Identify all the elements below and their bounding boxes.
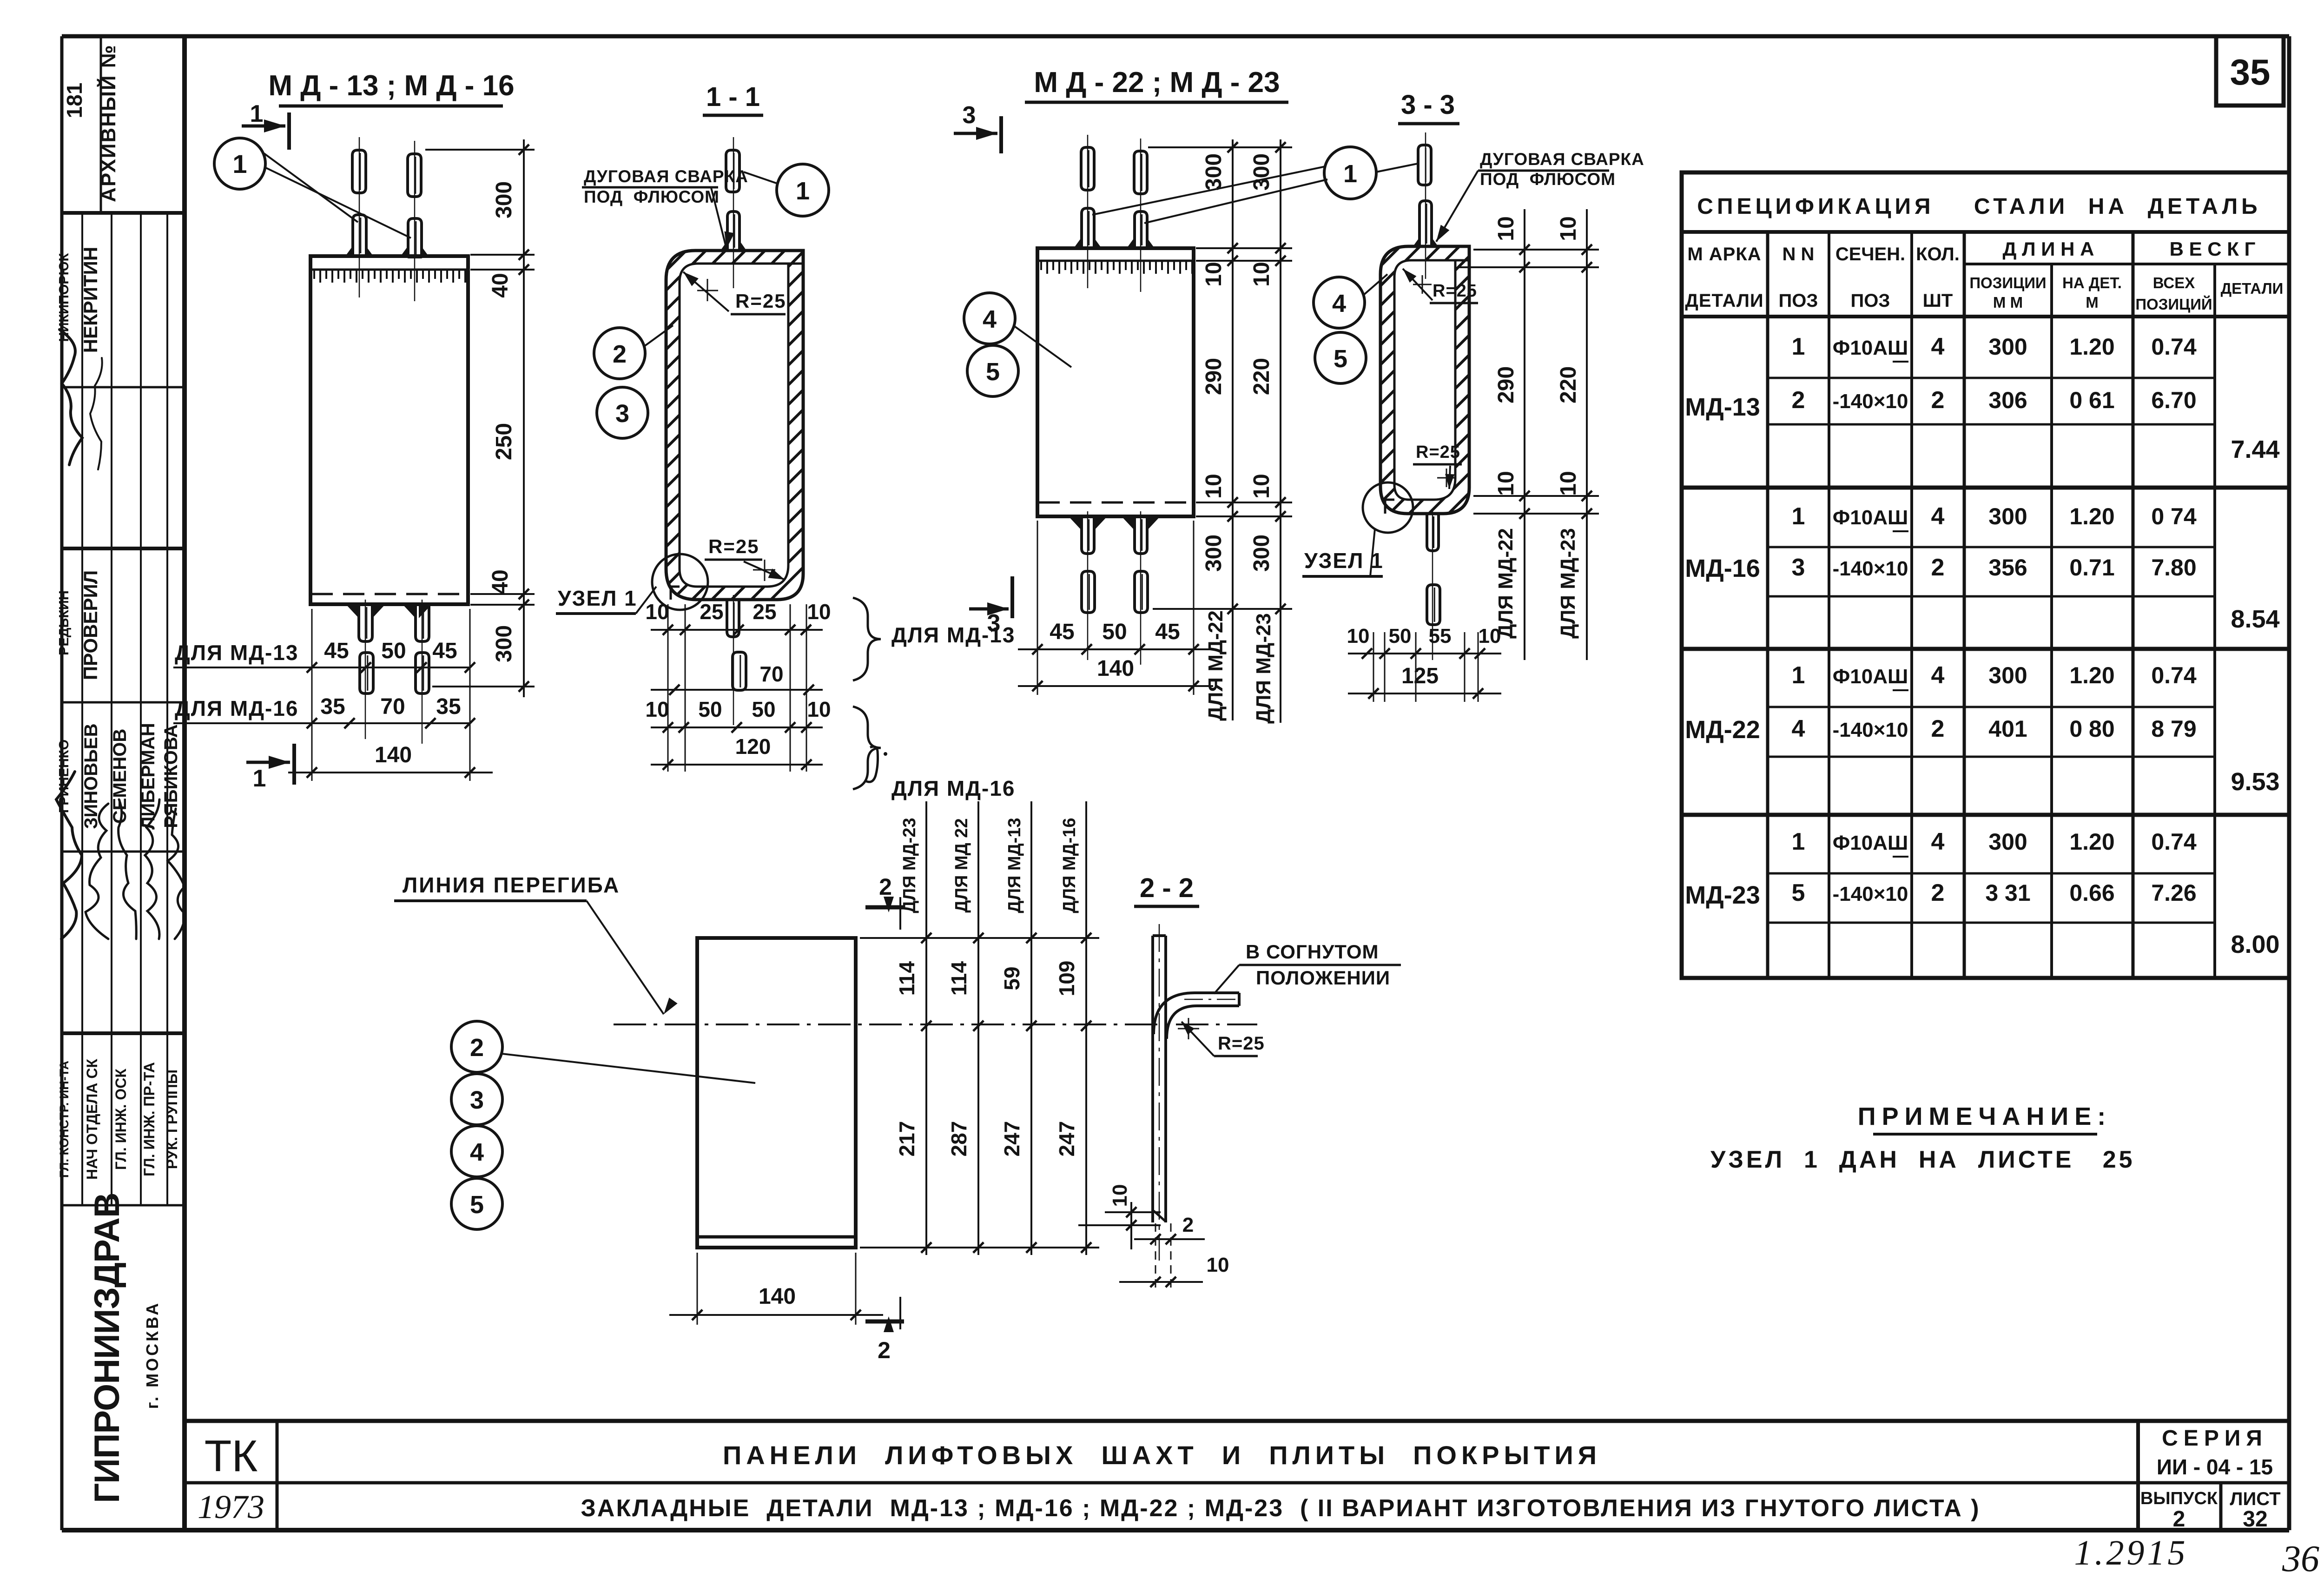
svg-text:70: 70: [380, 694, 405, 719]
svg-text:1.20: 1.20: [2069, 503, 2114, 529]
leader from circle 2: [502, 1054, 755, 1083]
svg-text:НА ДЕТ.: НА ДЕТ.: [2062, 274, 2122, 291]
svg-text:1: 1: [1792, 503, 1805, 530]
section mark 3 (top): [954, 132, 997, 135]
section 1-1 top anchor bar detached: [726, 150, 739, 192]
svg-text:R=25: R=25: [735, 290, 786, 312]
svg-text:ДЛЯ МД-13: ДЛЯ МД-13: [175, 641, 298, 665]
section 1-1 extension verticals: [667, 604, 669, 772]
svg-text:220: 220: [1249, 358, 1274, 395]
svg-text:4: 4: [1931, 333, 1945, 360]
svg-text:ДЕТАЛИ: ДЕТАЛИ: [1685, 291, 1763, 311]
svg-text:300: 300: [1988, 503, 2027, 529]
МД-22 bottom bars detached: [1082, 571, 1095, 613]
callout circle 1: [214, 138, 265, 189]
2-2 vertical plate: [1151, 936, 1154, 1222]
bar centerlines bottom: [365, 600, 366, 739]
svg-text:ДЛЯ МД-16: ДЛЯ МД-16: [1060, 818, 1079, 913]
dims 10/50/50/10: [651, 726, 823, 728]
svg-text:0.74: 0.74: [2151, 829, 2197, 855]
svg-text:МД-23: МД-23: [1685, 881, 1760, 909]
svg-text:1: 1: [250, 100, 264, 127]
svg-text:35: 35: [436, 694, 461, 719]
svg-text:N N: N N: [1783, 244, 1815, 264]
row: handwritten signatures: [59, 330, 82, 465]
section 3-3 top bar detached: [1418, 145, 1431, 185]
МД-22 top bars welded: [1082, 208, 1094, 248]
svg-text:2: 2: [613, 340, 627, 368]
svg-text:35: 35: [320, 694, 345, 719]
svg-text:Д Л И Н А: Д Л И Н А: [2003, 238, 2094, 260]
svg-text:140: 140: [1097, 656, 1134, 681]
svg-text:УЗЕЛ 1: УЗЕЛ 1: [558, 586, 637, 610]
svg-text:10: 10: [1202, 474, 1226, 498]
svg-text:1: 1: [1792, 828, 1805, 855]
svg-text:ЗИНОВЬЕВ: ЗИНОВЬЕВ: [81, 723, 101, 829]
svg-text:СЕЧЕН.: СЕЧЕН.: [1835, 244, 1905, 264]
fold line dash-dot: [614, 1024, 1257, 1025]
svg-text:0 74: 0 74: [2151, 503, 2197, 529]
svg-text:0.66: 0.66: [2069, 880, 2114, 906]
svg-text:РЯБИКОВА: РЯБИКОВА: [161, 724, 181, 828]
svg-text:300: 300: [1249, 153, 1274, 191]
МД-22 top bars detached: [1081, 147, 1094, 190]
svg-text:1.20: 1.20: [2069, 829, 2114, 855]
svg-text:10: 10: [1202, 262, 1226, 286]
dim column ДЛЯ МД-13: [1030, 801, 1032, 1255]
svg-text:-140×10: -140×10: [1833, 719, 1908, 741]
svg-text:45: 45: [1155, 620, 1180, 644]
svg-text:ПОЗИЦИИ: ПОЗИЦИИ: [1969, 274, 2046, 291]
svg-text:7.80: 7.80: [2151, 555, 2196, 581]
svg-text:3: 3: [963, 102, 976, 129]
section 1-1 top anchor bar welded: [727, 211, 739, 251]
3-3 dim 125: [1348, 693, 1501, 694]
extension lines of dim columns: [860, 937, 1099, 939]
svg-text:ДЛЯ МД-23: ДЛЯ МД-23: [1557, 528, 1579, 639]
svg-text:ДУГОВАЯ СВАРКА: ДУГОВАЯ СВАРКА: [1480, 150, 1644, 169]
svg-text:ДЕТАЛИ: ДЕТАЛИ: [2221, 280, 2284, 297]
svg-text:10: 10: [1207, 1254, 1229, 1276]
svg-text:ВСЕХ: ВСЕХ: [2153, 274, 2195, 291]
dim 140 of development: [669, 1314, 883, 1316]
svg-text:3 31: 3 31: [1985, 880, 2030, 906]
svg-text:М Д - 22 ; М Д - 23: М Д - 22 ; М Д - 23: [1034, 66, 1280, 99]
svg-text:4: 4: [470, 1138, 484, 1166]
specification table frame: [1682, 172, 2289, 978]
svg-text:2: 2: [1792, 387, 1805, 414]
svg-text:125: 125: [1401, 664, 1439, 688]
svg-text:ПАНЕЛИ ЛИФТОВЫХ ШАХТ И ПЛИ: ПАНЕЛИ ЛИФТОВЫХ ШАХТ И ПЛИТЫ ПОКРЫТИЯ: [723, 1440, 1601, 1470]
svg-text:1: 1: [1792, 333, 1805, 360]
МД-22 right dim lines: [1232, 139, 1234, 720]
svg-text:45: 45: [1050, 620, 1074, 644]
svg-text:4: 4: [1792, 715, 1805, 742]
bar centerlines top: [359, 137, 360, 297]
svg-text:290: 290: [1494, 366, 1519, 403]
svg-text:ПОД ФЛЮСОМ: ПОД ФЛЮСОМ: [1480, 170, 1616, 189]
svg-text:109: 109: [1055, 961, 1079, 997]
svg-text:1.20: 1.20: [2069, 334, 2114, 360]
svg-text:181: 181: [62, 83, 86, 119]
2-2 dim 10 (bottom): [1119, 1281, 1203, 1283]
svg-text:50: 50: [381, 639, 406, 663]
section 1-1 bottom bar detached: [733, 652, 746, 690]
svg-text:ПОЗ: ПОЗ: [1779, 291, 1818, 311]
sheet number box 35: [2216, 36, 2284, 106]
svg-text:1.20: 1.20: [2069, 662, 2114, 688]
svg-text:-140×10: -140×10: [1833, 883, 1908, 905]
svg-text:2: 2: [1931, 879, 1945, 906]
callout circles 4,5: [964, 293, 1015, 344]
svg-text:4: 4: [1931, 503, 1945, 530]
svg-text:114: 114: [947, 961, 971, 996]
svg-text:50: 50: [752, 697, 775, 721]
svg-text:36: 36: [2282, 1539, 2319, 1579]
svg-text:ЛИСТ: ЛИСТ: [2230, 1489, 2280, 1509]
development rectangle: [697, 938, 856, 1248]
svg-text:8 79: 8 79: [2151, 716, 2196, 742]
svg-text:10: 10: [1556, 216, 1581, 241]
svg-text:10: 10: [1479, 625, 1501, 647]
svg-text:10: 10: [645, 697, 669, 721]
svg-text:г. МОСКВА: г. МОСКВА: [143, 1301, 162, 1409]
svg-text:Ф10АШ: Ф10АШ: [1833, 337, 1908, 359]
svg-text:Ф10АШ: Ф10АШ: [1833, 506, 1908, 529]
svg-text:4: 4: [1931, 662, 1945, 689]
svg-text:300: 300: [1988, 829, 2027, 855]
svg-text:РЕДЬКИН: РЕДЬКИН: [57, 590, 72, 655]
anchor bars pos 1 top (welded): [353, 215, 366, 256]
svg-text:0.74: 0.74: [2151, 662, 2197, 688]
svg-text:40: 40: [488, 273, 513, 297]
svg-text:АРХИВНЫЙ №: АРХИВНЫЙ №: [96, 44, 120, 202]
svg-text:1 - 1: 1 - 1: [706, 82, 760, 112]
section 3-3 right dim lines: [1524, 209, 1525, 660]
brace 2: [853, 707, 881, 789]
section 1-1 bottom bar welded: [727, 600, 739, 637]
svg-text:3 - 3: 3 - 3: [1401, 90, 1455, 120]
svg-text:0 80: 0 80: [2069, 716, 2114, 742]
svg-text:2: 2: [878, 1337, 891, 1363]
svg-text:МД-16: МД-16: [1685, 555, 1760, 582]
svg-text:114: 114: [895, 961, 919, 996]
svg-text:306: 306: [1988, 387, 2027, 413]
anchor bars bottom (detached): [360, 653, 373, 693]
svg-text:10: 10: [1556, 471, 1581, 495]
svg-text:УЗЕЛ 1 ДАН НА ЛИСТЕ 25: УЗЕЛ 1 ДАН НА ЛИСТЕ 25: [1710, 1146, 2135, 1173]
svg-text:300: 300: [492, 625, 516, 662]
svg-text:СЕРИЯ: СЕРИЯ: [2162, 1426, 2268, 1451]
svg-text:3: 3: [470, 1086, 484, 1114]
svg-text:250: 250: [492, 423, 516, 460]
svg-text:300: 300: [1202, 153, 1226, 191]
svg-text:ЛИНИЯ ПЕРЕГИБА: ЛИНИЯ ПЕРЕГИБА: [403, 873, 620, 897]
svg-text:10: 10: [1494, 471, 1519, 495]
svg-text:ГЛ. КОНСТР. ИН-ТА: ГЛ. КОНСТР. ИН-ТА: [57, 1061, 71, 1178]
dim 140: [288, 772, 493, 773]
svg-text:М М: М М: [1993, 294, 2023, 311]
svg-text:R=25: R=25: [1218, 1033, 1265, 1054]
svg-text:2: 2: [1931, 715, 1945, 742]
svg-text:ДЛЯ МД-16: ДЛЯ МД-16: [891, 776, 1015, 800]
section mark 3 (bottom): [969, 608, 1009, 611]
svg-text:3: 3: [1792, 554, 1805, 581]
svg-text:35: 35: [2230, 52, 2271, 92]
svg-text:Ф10АШ: Ф10АШ: [1833, 665, 1908, 688]
svg-text:25: 25: [700, 600, 723, 624]
svg-text:ДЛЯ МД 22: ДЛЯ МД 22: [952, 818, 971, 912]
svg-text:ГИПРОНИИЗДРАВ: ГИПРОНИИЗДРАВ: [87, 1193, 127, 1503]
svg-text:217: 217: [895, 1121, 919, 1157]
callout circles 2,3,4,5: [451, 1021, 502, 1072]
svg-text:ПОД ФЛЮСОМ: ПОД ФЛЮСОМ: [584, 187, 720, 206]
svg-text:ДУГОВАЯ СВАРКА: ДУГОВАЯ СВАРКА: [584, 167, 748, 186]
svg-text:300: 300: [1249, 535, 1274, 572]
svg-text:ПРИМЕЧАНИЕ:: ПРИМЕЧАНИЕ:: [1858, 1103, 2112, 1130]
svg-text:ПОЗИЦИЙ: ПОЗИЦИЙ: [2135, 295, 2212, 313]
svg-text:247: 247: [1000, 1121, 1024, 1157]
svg-text:М: М: [2086, 294, 2099, 311]
svg-text:3: 3: [615, 400, 629, 428]
svg-text:М АРКА: М АРКА: [1687, 244, 1761, 264]
svg-text:4: 4: [1332, 290, 1346, 317]
sheet outer frame: [62, 34, 2289, 39]
section 3-3 top bar welded: [1419, 201, 1432, 246]
3-3 bottom dims 10/50/55/10: [1348, 653, 1501, 654]
svg-text:290: 290: [1202, 358, 1226, 395]
svg-text:59: 59: [1000, 966, 1024, 990]
svg-text:НЕКРИТИН: НЕКРИТИН: [79, 247, 101, 353]
section mark 1 (bottom): [246, 761, 290, 764]
svg-text:ГЛ. ИНЖ. ОСК: ГЛ. ИНЖ. ОСК: [112, 1069, 129, 1170]
svg-text:ДЛЯ МД-13: ДЛЯ МД-13: [1005, 818, 1024, 913]
МД-22 dim 140: [1018, 685, 1213, 687]
dim 120: [651, 764, 823, 766]
svg-text:140: 140: [375, 743, 412, 767]
svg-text:ДЛЯ МД-22: ДЛЯ МД-22: [1494, 528, 1517, 639]
leader lines from circle 1 to anchor bars: [264, 153, 358, 222]
svg-text:ШТ: ШТ: [1923, 291, 1953, 311]
svg-text:10: 10: [645, 600, 669, 624]
left title block grid: [62, 211, 185, 215]
МД-22 bottom dims 45/50/45: [1018, 648, 1213, 650]
svg-text:300: 300: [1988, 662, 2027, 688]
svg-text:50: 50: [1102, 620, 1127, 644]
leaders to МД-22 bars: [1092, 166, 1326, 215]
svg-text:ИИ - 04 - 15: ИИ - 04 - 15: [2157, 1455, 2273, 1479]
svg-text:356: 356: [1988, 555, 2027, 581]
dim column ДЛЯ МД 22: [977, 801, 979, 1255]
svg-text:0 61: 0 61: [2069, 387, 2114, 413]
svg-text:5: 5: [1792, 879, 1805, 906]
svg-text:МД-13: МД-13: [1685, 393, 1760, 421]
bottom title block: [185, 1419, 2289, 1423]
МД-22 bottom bars welded: [1082, 516, 1094, 554]
svg-text:ДЛЯ МД-16: ДЛЯ МД-16: [175, 696, 298, 720]
svg-text:R=25: R=25: [1433, 281, 1477, 301]
svg-text:6.70: 6.70: [2151, 387, 2196, 413]
dim column ДЛЯ МД-23: [925, 801, 927, 1255]
svg-text:СЕМЕНОВ: СЕМЕНОВ: [110, 729, 130, 824]
section 1-1 bent plate body (hatched): [666, 251, 803, 600]
section mark 2 (top): [865, 905, 904, 910]
dim 70: [651, 689, 823, 691]
svg-text:2 - 2: 2 - 2: [1140, 873, 1194, 903]
svg-text:2: 2: [1931, 387, 1945, 414]
row: signatures: [56, 772, 82, 939]
svg-text:ДЛЯ МД-23: ДЛЯ МД-23: [900, 818, 919, 913]
svg-text:МД-22: МД-22: [1685, 716, 1760, 744]
svg-text:5: 5: [470, 1191, 484, 1219]
svg-text:ПОЛОЖЕНИИ: ПОЛОЖЕНИИ: [1256, 967, 1390, 989]
svg-text:КОЛ.: КОЛ.: [1916, 244, 1960, 264]
svg-text:2: 2: [879, 874, 892, 900]
svg-text:2: 2: [470, 1034, 484, 1062]
svg-text:55: 55: [1429, 625, 1452, 647]
svg-text:1: 1: [253, 765, 266, 792]
section 3-3 bottom bar welded: [1427, 514, 1439, 551]
svg-text:2: 2: [1931, 554, 1945, 581]
svg-text:ВЫПУСК: ВЫПУСК: [2140, 1489, 2218, 1508]
svg-text:ЗАКЛАДНЫЕ ДЕТАЛИ МД-13 ; МД-: ЗАКЛАДНЫЕ ДЕТАЛИ МД-13 ; МД-16 ; МД-22 ;…: [581, 1495, 1980, 1522]
узел 1 circle 3-3: [1363, 482, 1413, 533]
section 3-3 bottom bar detached: [1427, 585, 1440, 625]
svg-text:7.44: 7.44: [2231, 436, 2279, 463]
svg-text:247: 247: [1055, 1121, 1079, 1157]
svg-text:В Е С К Г: В Е С К Г: [2170, 238, 2256, 260]
svg-text:1.2915: 1.2915: [2074, 1533, 2188, 1572]
svg-text:10: 10: [1347, 625, 1370, 647]
bend centre cross: [1178, 1028, 1199, 1030]
svg-text:8.00: 8.00: [2231, 931, 2279, 958]
svg-text:-140×10: -140×10: [1833, 390, 1908, 413]
svg-text:120: 120: [735, 734, 771, 759]
svg-text:70: 70: [759, 662, 783, 686]
plate МД-22/23 front: [1037, 248, 1194, 516]
section mark 1 (top): [242, 125, 285, 128]
callout circle 1 of section 1-1: [777, 164, 829, 216]
svg-text:287: 287: [947, 1121, 971, 1157]
svg-text:32: 32: [2243, 1507, 2267, 1532]
plate seam lines: [788, 263, 803, 265]
svg-text:8.54: 8.54: [2231, 605, 2279, 633]
dim column ДЛЯ МД-16: [1085, 801, 1087, 1255]
svg-text:ГЛ. ИНЖ. ПР-ТА: ГЛ. ИНЖ. ПР-ТА: [141, 1062, 158, 1176]
weld hatch on plate top МД-22: [1041, 262, 1192, 274]
svg-text:4: 4: [1931, 828, 1945, 855]
section 1-1 bottom dims row 10/25/25/10: [651, 629, 823, 631]
anchor bars bottom (welded): [359, 604, 372, 641]
right dimension line of МД-13/16: [523, 139, 525, 697]
svg-text:25: 25: [753, 600, 776, 624]
fold dashed line МД-22: [1038, 502, 1193, 504]
svg-text:0.74: 0.74: [2151, 334, 2197, 360]
svg-text:7.26: 7.26: [2151, 880, 2196, 906]
leader to 3-3 bar: [1376, 164, 1418, 172]
svg-text:1: 1: [232, 149, 247, 178]
svg-text:2: 2: [1182, 1214, 1194, 1236]
svg-text:ДЛЯ МД-23: ДЛЯ МД-23: [1252, 613, 1275, 724]
svg-text:10: 10: [807, 600, 831, 624]
section mark 2 (bottom): [865, 1320, 904, 1324]
svg-text:4: 4: [983, 305, 997, 333]
svg-text:R=25: R=25: [1416, 442, 1460, 462]
svg-text:5: 5: [1334, 345, 1347, 373]
extension verticals: [311, 609, 313, 781]
callout circle 1 (shared МД-22 / 3-3): [1324, 147, 1376, 199]
svg-text:140: 140: [759, 1284, 796, 1309]
2-2 dim 10 (left of plate end): [1105, 1211, 1161, 1213]
section 3-3 bent plate body: [1380, 246, 1469, 514]
svg-text:40: 40: [488, 569, 513, 594]
svg-text:10: 10: [807, 697, 831, 721]
brace 1: [853, 598, 881, 680]
svg-text:10: 10: [1249, 474, 1274, 498]
svg-text:300: 300: [1202, 535, 1226, 572]
svg-text:СПЕЦИФИКАЦИЯ СТАЛИ НА ДЕТ: СПЕЦИФИКАЦИЯ СТАЛИ НА ДЕТАЛЬ: [1697, 194, 2261, 219]
svg-text:В СОГНУТОМ: В СОГНУТОМ: [1246, 941, 1379, 963]
svg-text:НАЧ ОТДЕЛА СК: НАЧ ОТДЕЛА СК: [84, 1059, 100, 1180]
svg-text:1973: 1973: [198, 1488, 264, 1526]
stray scan mark: [865, 746, 878, 782]
2-2 dim 2: [1134, 1238, 1205, 1240]
2-2 plate bevelled end: [1154, 1211, 1166, 1222]
svg-text:М Д - 13 ; М Д - 16: М Д - 13 ; М Д - 16: [268, 70, 514, 102]
svg-text:1: 1: [1343, 160, 1357, 188]
svg-text:РУК. ГРУППЫ: РУК. ГРУППЫ: [164, 1070, 180, 1169]
узел 1 circle on section 1-1: [652, 554, 708, 610]
2-2 bent position strip: [1154, 993, 1239, 1034]
svg-text:3: 3: [987, 610, 1001, 637]
weld hatch on plate top: [314, 271, 465, 283]
svg-text:220: 220: [1556, 366, 1581, 403]
svg-text:10: 10: [1109, 1184, 1131, 1207]
svg-text:1: 1: [1792, 662, 1805, 689]
svg-text:ДЛЯ МД-22: ДЛЯ МД-22: [1204, 610, 1227, 721]
svg-text:50: 50: [698, 697, 722, 721]
svg-text:300: 300: [1988, 334, 2027, 360]
svg-text:45: 45: [324, 639, 349, 663]
svg-text:1: 1: [796, 177, 810, 205]
svg-text:0.71: 0.71: [2069, 555, 2114, 581]
svg-text:-140×10: -140×10: [1833, 557, 1908, 580]
svg-text:ТК: ТК: [205, 1431, 258, 1481]
plate МД-13/16 front: [310, 256, 468, 604]
fold dashed line: [311, 593, 467, 595]
svg-text:10: 10: [1494, 216, 1519, 241]
svg-text:Ф10АШ: Ф10АШ: [1833, 832, 1908, 854]
svg-text:ПОЗ: ПОЗ: [1851, 291, 1890, 311]
svg-text:45: 45: [432, 639, 457, 663]
callout circles 4,5 of 3-3: [1314, 277, 1365, 328]
svg-text:ПРОВЕРИЛ: ПРОВЕРИЛ: [79, 570, 101, 680]
svg-text:5: 5: [986, 358, 1000, 386]
svg-text:2: 2: [2173, 1507, 2185, 1532]
anchor bars pos 1 top (detached): [352, 150, 366, 193]
svg-text:R=25: R=25: [708, 535, 759, 557]
svg-text:401: 401: [1988, 716, 2027, 742]
callout circles 2,3 of section 1-1: [594, 328, 645, 379]
svg-text:10: 10: [1249, 262, 1274, 286]
svg-text:9.53: 9.53: [2231, 768, 2279, 796]
svg-text:300: 300: [492, 181, 516, 218]
svg-text:50: 50: [1389, 625, 1412, 647]
